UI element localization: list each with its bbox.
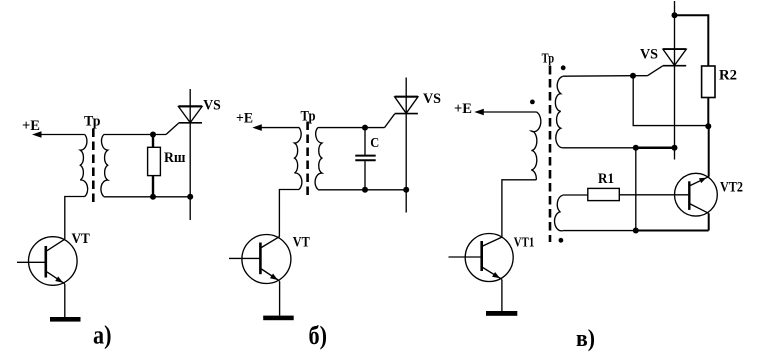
transformer T3 lower secondary winding (v)	[555, 195, 563, 231]
node junction gate (v)	[630, 73, 636, 79]
transistor VT emitter diagonal (b)	[261, 269, 279, 281]
wire +E lead (v)	[483, 111, 536, 113]
node junction anode-top (v)	[672, 12, 678, 18]
ground (v)	[486, 311, 517, 316]
wire gate diagonal (v)	[648, 66, 664, 76]
transistor VT emitter diagonal (a)	[47, 272, 65, 284]
thyristor VS anode edge (v)	[663, 48, 686, 50]
svg-text:в): в)	[576, 326, 595, 352]
arrow +E (a)	[32, 131, 42, 138]
resistor R1 body (v)	[588, 188, 620, 200]
wire base lead (a)	[17, 261, 45, 263]
node junction bottom (v)	[633, 228, 639, 234]
node junction mid-cathode (v)	[672, 145, 678, 151]
wire mid vertical (v)	[635, 148, 637, 231]
transistor VT1 base bar (v)	[480, 241, 483, 271]
transistor VT base bar (a)	[44, 246, 47, 278]
thyristor VS triangle (v)	[663, 49, 686, 65]
thyristor VS triangle (b)	[395, 97, 418, 113]
transformer T3 core (v)	[549, 66, 552, 242]
wire secondary bottom rail (b)	[318, 189, 406, 191]
transistor VT emitter arrow (b)	[270, 274, 278, 280]
polarity dot lower secondary (v)	[559, 238, 564, 243]
svg-text:VS: VS	[423, 91, 441, 107]
svg-text:+E: +E	[22, 118, 40, 134]
node junction cathode-bottom (b)	[403, 187, 409, 193]
thyristor VS cathode bar (b)	[395, 113, 418, 115]
wire primary bottom to collector (b)	[279, 190, 299, 237]
svg-text:R2: R2	[719, 67, 737, 83]
svg-text:Rш: Rш	[164, 150, 186, 166]
transistor VT2 circle (v)	[675, 173, 718, 216]
polarity dot upper secondary (v)	[561, 65, 566, 70]
wire bottom to VT2 emitter (v)	[636, 230, 709, 232]
wire thyristor anode-cathode line (a)	[189, 89, 191, 220]
svg-text:VT: VT	[293, 234, 310, 250]
wire VT1 emitter to ground (v)	[501, 280, 503, 312]
capacitor C bottom plate (b)	[355, 159, 375, 161]
wire VT2 emitter (v)	[708, 213, 710, 230]
transformer T1 core (a)	[92, 129, 95, 204]
transistor VT2 base bar (v)	[688, 181, 690, 210]
wire upper secondary top to gate (v)	[563, 75, 633, 78]
transistor VT2 collector diagonal (v)	[690, 177, 708, 186]
svg-text:б): б)	[309, 321, 328, 350]
thyristor VS cathode bar (v)	[663, 65, 686, 67]
wire top branch to R2 (v)	[675, 15, 709, 66]
svg-text:VT2: VT2	[720, 179, 743, 195]
wire thyristor anode-cathode line (b)	[405, 78, 407, 213]
wire +E lead (a)	[40, 134, 85, 136]
thyristor VS cathode bar (a)	[179, 122, 203, 124]
transformer T2 primary winding (b)	[295, 127, 302, 189]
transformer T1 primary winding (a)	[80, 135, 87, 197]
transistor VT2 collector arrow (v)	[699, 178, 707, 184]
node junction cap-bottom (b)	[362, 187, 368, 193]
transformer T3 upper secondary winding (v)	[555, 76, 562, 147]
thyristor VS triangle (a)	[179, 107, 203, 123]
transistor VT1 emitter arrow (v)	[492, 272, 500, 278]
transformer T1 secondary winding (a)	[101, 135, 108, 197]
svg-text:Тр: Тр	[84, 114, 101, 130]
transformer T3 primary winding (v)	[531, 112, 541, 180]
ground (b)	[263, 316, 294, 321]
wire gate diagonal (b)	[385, 114, 395, 128]
thyristor VS anode edge (a)	[179, 105, 203, 107]
resistor Rsh body (a)	[148, 147, 161, 175]
wire primary bottom to collector (a)	[65, 197, 85, 240]
svg-text:VT: VT	[72, 231, 90, 247]
wire capacitor bottom lead (b)	[364, 161, 366, 190]
wire thyristor anode-cathode line (v)	[674, 1, 676, 160]
wire R2 bottom lead (v)	[707, 98, 709, 127]
wire R1 right lead to VT2 base (v)	[619, 194, 688, 196]
wire secondary top rail (b)	[318, 127, 385, 129]
wire gate down and across to R2 bottom (v)	[633, 76, 708, 126]
transformer T2 core (b)	[306, 122, 309, 197]
svg-text:а): а)	[93, 321, 112, 350]
wire capacitor top lead (b)	[364, 128, 366, 155]
wire mid thick segment (v)	[636, 147, 675, 150]
wire VT2 collector (v)	[708, 126, 710, 176]
polarity dot primary (v)	[530, 100, 535, 105]
wire resistor top lead (a)	[152, 135, 154, 148]
svg-text:VT1: VT1	[514, 235, 535, 250]
wire secondary bottom rail (a)	[104, 196, 191, 198]
wire emitter to ground (a)	[64, 284, 66, 317]
wire resistor bottom lead (a)	[152, 176, 154, 197]
svg-text:+E: +E	[454, 101, 472, 117]
wire R1 left lead (v)	[563, 194, 588, 196]
transistor VT circle (a)	[29, 237, 78, 286]
transistor VT2 emitter diagonal (v)	[690, 204, 708, 213]
wire gate diagonal (a)	[166, 123, 179, 134]
transistor VT1 emitter diagonal (v)	[483, 268, 502, 280]
svg-text:VS: VS	[203, 98, 221, 114]
transformer T2 secondary winding (b)	[315, 127, 322, 189]
wire secondary top rail (a)	[104, 134, 166, 136]
transistor VT collector diagonal (a)	[47, 239, 65, 251]
wire upper secondary bottom (v)	[563, 147, 636, 149]
transistor VT circle (b)	[242, 235, 291, 284]
transistor VT1 collector diagonal (v)	[483, 237, 502, 246]
svg-text:C: C	[370, 136, 379, 151]
transistor VT base bar (b)	[259, 243, 262, 275]
thyristor VS anode edge (b)	[395, 96, 418, 98]
transistor VT1 circle (v)	[465, 234, 513, 282]
arrow +E (b)	[252, 124, 261, 131]
wire lower secondary bottom (v)	[563, 230, 636, 232]
svg-text:Тр: Тр	[542, 51, 555, 66]
transistor VT collector diagonal (b)	[261, 237, 279, 248]
node junction cap-top (b)	[362, 125, 368, 131]
wire gate stub (v)	[633, 75, 648, 77]
wire +E lead (b)	[261, 127, 299, 129]
capacitor C top plate (b)	[355, 155, 375, 157]
svg-text:VS: VS	[640, 46, 658, 62]
node junction R2-bottom (v)	[705, 123, 711, 129]
svg-text:+E: +E	[236, 111, 253, 127]
node junction secondary-top/gate (a)	[150, 132, 156, 138]
ground (a)	[50, 317, 81, 322]
transistor VT emitter arrow (a)	[55, 276, 63, 282]
svg-text:R1: R1	[598, 171, 614, 187]
wire VT1 base lead (v)	[449, 256, 482, 258]
wire primary bottom to VT1 collector (v)	[502, 180, 536, 237]
node junction resistor-bottom (a)	[150, 194, 156, 200]
node junction mid-left (v)	[633, 145, 639, 151]
resistor R2 body (v)	[702, 66, 715, 98]
wire base lead (b)	[229, 257, 260, 259]
arrow +E (v)	[474, 109, 484, 116]
wire emitter to ground (b)	[279, 281, 281, 315]
node junction cathode-bottom (a)	[187, 194, 193, 200]
